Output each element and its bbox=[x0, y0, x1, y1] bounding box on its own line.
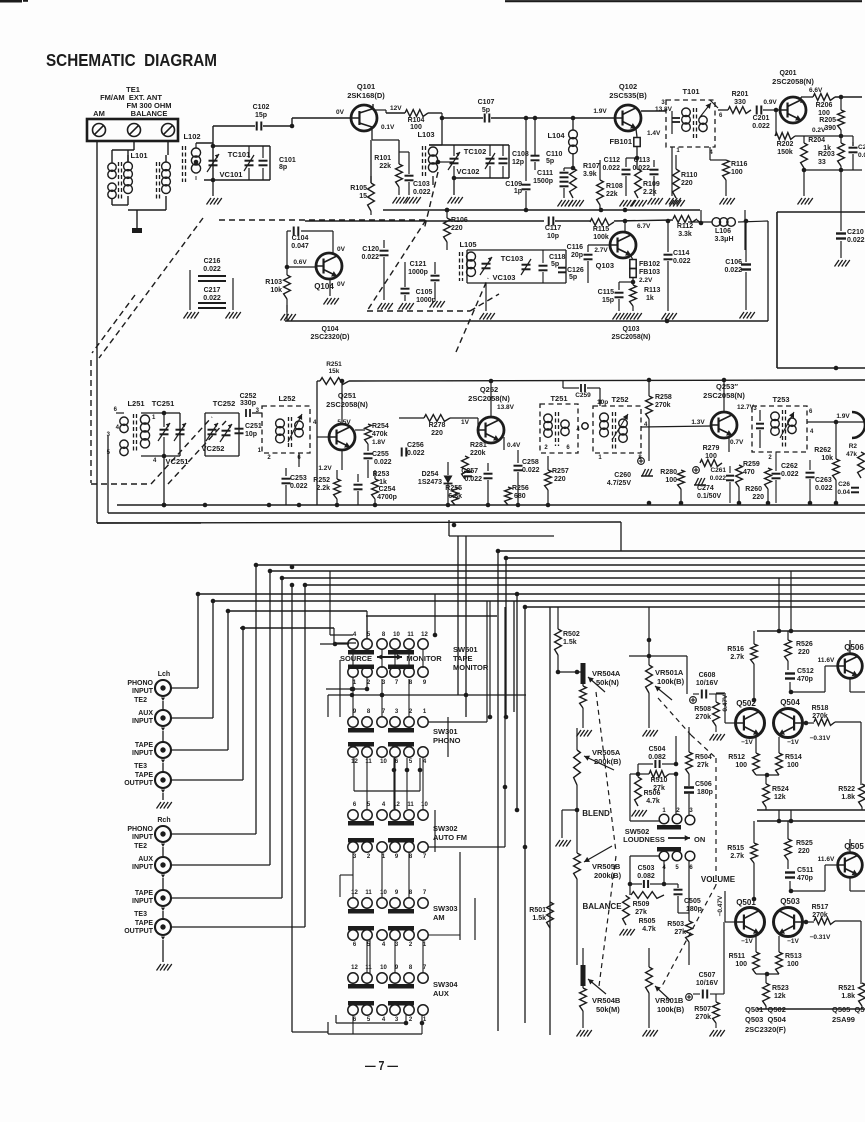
svg-text:R514: R514 bbox=[785, 754, 802, 761]
svg-text:T253: T253 bbox=[772, 395, 789, 404]
svg-text:0V: 0V bbox=[337, 246, 346, 253]
svg-text:180p: 180p bbox=[697, 789, 713, 796]
svg-text:470: 470 bbox=[743, 469, 755, 476]
svg-text:R113: R113 bbox=[644, 287, 660, 294]
svg-text:1.8V: 1.8V bbox=[372, 439, 386, 446]
svg-text:0V: 0V bbox=[337, 281, 346, 288]
svg-text:12k: 12k bbox=[774, 794, 786, 801]
svg-text:MONITOR: MONITOR bbox=[406, 654, 442, 663]
svg-text:0.022: 0.022 bbox=[413, 189, 431, 196]
svg-text:R2: R2 bbox=[849, 443, 858, 450]
svg-text:3.3μH: 3.3μH bbox=[714, 236, 733, 243]
svg-text:TAPE: TAPE bbox=[135, 920, 153, 927]
svg-text:12: 12 bbox=[351, 890, 358, 896]
svg-text:0.022: 0.022 bbox=[464, 476, 482, 483]
svg-text:27k: 27k bbox=[674, 929, 686, 936]
svg-text:100: 100 bbox=[735, 762, 747, 769]
svg-text:INPUT: INPUT bbox=[132, 898, 154, 905]
svg-text:470p: 470p bbox=[797, 676, 813, 683]
svg-text:12p: 12p bbox=[512, 159, 524, 166]
svg-text:R504: R504 bbox=[695, 754, 712, 761]
svg-text:C112: C112 bbox=[604, 157, 620, 164]
svg-text:−1V: −1V bbox=[741, 739, 753, 746]
svg-text:100: 100 bbox=[787, 961, 799, 968]
svg-text:27k: 27k bbox=[697, 762, 709, 769]
svg-text:R254: R254 bbox=[372, 423, 389, 430]
svg-text:12V: 12V bbox=[390, 105, 402, 112]
svg-text:Q501 Q502: Q501 Q502 bbox=[745, 1005, 786, 1014]
svg-text:C274: C274 bbox=[697, 485, 714, 492]
svg-text:R279: R279 bbox=[703, 445, 720, 452]
svg-text:47k: 47k bbox=[846, 451, 857, 458]
svg-text:R510: R510 bbox=[651, 777, 668, 784]
svg-text:— 7 —: — 7 — bbox=[365, 1059, 398, 1073]
svg-text:R521: R521 bbox=[838, 985, 855, 992]
svg-text:0.022: 0.022 bbox=[522, 467, 540, 474]
svg-text:4.7/25V: 4.7/25V bbox=[607, 480, 631, 487]
svg-text:C2: C2 bbox=[858, 144, 865, 151]
svg-text:11: 11 bbox=[365, 759, 372, 765]
svg-text:50k(N): 50k(N) bbox=[596, 678, 619, 687]
svg-text:R257: R257 bbox=[552, 468, 569, 475]
svg-text:20p: 20p bbox=[571, 252, 583, 259]
svg-text:220k: 220k bbox=[470, 450, 486, 457]
svg-text:R525: R525 bbox=[796, 840, 813, 847]
svg-text:22k: 22k bbox=[379, 163, 391, 170]
svg-text:TAPE: TAPE bbox=[135, 742, 153, 749]
svg-text:11: 11 bbox=[407, 802, 414, 808]
svg-text:R205: R205 bbox=[819, 117, 836, 124]
svg-text:FB101: FB101 bbox=[609, 137, 632, 146]
svg-text:15: 15 bbox=[359, 193, 367, 200]
svg-text:R501: R501 bbox=[529, 907, 546, 914]
svg-text:C105: C105 bbox=[416, 289, 433, 296]
svg-text:C107: C107 bbox=[478, 99, 495, 106]
svg-text:R107: R107 bbox=[583, 163, 600, 170]
svg-text:150k: 150k bbox=[777, 149, 793, 156]
svg-text:1.4V: 1.4V bbox=[647, 130, 661, 137]
svg-text:1.8k: 1.8k bbox=[841, 794, 855, 801]
svg-text:220: 220 bbox=[554, 476, 566, 483]
svg-text:Q504: Q504 bbox=[780, 698, 800, 707]
svg-text:C251: C251 bbox=[245, 423, 262, 430]
svg-text:10: 10 bbox=[421, 802, 428, 808]
svg-text:0.047: 0.047 bbox=[291, 243, 309, 250]
svg-text:10k: 10k bbox=[270, 287, 282, 294]
svg-text:Q505 Q5: Q505 Q5 bbox=[832, 1005, 865, 1014]
svg-text:R517: R517 bbox=[812, 904, 829, 911]
svg-text:Q253″: Q253″ bbox=[716, 382, 738, 391]
svg-text:TE3: TE3 bbox=[134, 911, 147, 918]
svg-text:0.022: 0.022 bbox=[781, 471, 799, 478]
svg-text:Q252: Q252 bbox=[480, 385, 498, 394]
svg-text:1k: 1k bbox=[646, 295, 654, 302]
svg-text:VC101: VC101 bbox=[220, 170, 243, 179]
svg-text:470k: 470k bbox=[372, 431, 388, 438]
svg-text:1.9V: 1.9V bbox=[836, 413, 850, 420]
svg-text:1000p: 1000p bbox=[408, 269, 428, 276]
svg-text:13.8V: 13.8V bbox=[655, 106, 673, 113]
svg-text:Q503 Q504: Q503 Q504 bbox=[745, 1015, 787, 1024]
svg-text:Q104: Q104 bbox=[321, 326, 338, 333]
svg-text:50k(M): 50k(M) bbox=[596, 1005, 620, 1014]
svg-text:Lch: Lch bbox=[158, 671, 170, 678]
svg-text:R281: R281 bbox=[470, 442, 487, 449]
svg-text:R526: R526 bbox=[796, 641, 813, 648]
svg-text:2.7V: 2.7V bbox=[594, 247, 608, 254]
svg-text:10: 10 bbox=[393, 632, 400, 638]
svg-text:C110: C110 bbox=[546, 151, 562, 158]
svg-text:R206: R206 bbox=[816, 102, 833, 109]
svg-text:0.022: 0.022 bbox=[203, 266, 221, 273]
svg-text:INPUT: INPUT bbox=[132, 864, 154, 871]
svg-text:R508: R508 bbox=[694, 706, 711, 713]
svg-text:2SC2320(F): 2SC2320(F) bbox=[745, 1025, 786, 1034]
svg-text:0.022: 0.022 bbox=[602, 165, 620, 172]
svg-text:2SC2058(N): 2SC2058(N) bbox=[468, 394, 510, 403]
svg-text:TC102: TC102 bbox=[464, 147, 487, 156]
svg-text:Q103: Q103 bbox=[596, 261, 614, 270]
svg-text:C210: C210 bbox=[847, 229, 864, 236]
svg-text:−1V: −1V bbox=[741, 938, 753, 945]
svg-text:SW303: SW303 bbox=[433, 904, 458, 913]
svg-text:D254: D254 bbox=[422, 471, 439, 478]
svg-text:C111: C111 bbox=[537, 170, 553, 177]
svg-text:1V: 1V bbox=[461, 419, 470, 426]
svg-text:5p: 5p bbox=[551, 261, 559, 268]
svg-text:15p: 15p bbox=[602, 297, 614, 304]
svg-text:0.022: 0.022 bbox=[815, 485, 833, 492]
svg-text:2.7k: 2.7k bbox=[730, 654, 744, 661]
svg-text:AUX: AUX bbox=[138, 710, 153, 717]
svg-text:1500p: 1500p bbox=[533, 178, 553, 185]
svg-text:3.3k: 3.3k bbox=[678, 231, 692, 238]
svg-text:11: 11 bbox=[365, 965, 372, 971]
svg-text:R115: R115 bbox=[593, 226, 609, 233]
svg-text:270k: 270k bbox=[695, 1014, 711, 1021]
svg-text:PHONO: PHONO bbox=[127, 680, 153, 687]
svg-text:C511: C511 bbox=[797, 867, 813, 874]
svg-text:0.1/50V: 0.1/50V bbox=[697, 493, 721, 500]
svg-text:R110: R110 bbox=[681, 172, 697, 179]
svg-text:10: 10 bbox=[380, 759, 387, 765]
svg-text:2SC2058(N): 2SC2058(N) bbox=[772, 77, 814, 86]
svg-text:C255: C255 bbox=[372, 451, 389, 458]
svg-text:2SK168(D): 2SK168(D) bbox=[347, 91, 385, 100]
svg-text:R116: R116 bbox=[731, 161, 747, 168]
svg-text:VR504B: VR504B bbox=[592, 996, 621, 1005]
svg-text:VC102: VC102 bbox=[457, 167, 480, 176]
svg-text:2.2k: 2.2k bbox=[316, 485, 330, 492]
svg-text:C104: C104 bbox=[292, 235, 309, 242]
svg-text:TC101: TC101 bbox=[228, 150, 251, 159]
svg-text:R251: R251 bbox=[326, 361, 342, 368]
svg-text:SW501: SW501 bbox=[453, 645, 478, 654]
svg-text:TC252: TC252 bbox=[213, 399, 236, 408]
svg-text:1k: 1k bbox=[379, 479, 387, 486]
svg-text:6.7V: 6.7V bbox=[637, 223, 651, 230]
svg-text:R280: R280 bbox=[660, 469, 677, 476]
svg-text:BLEND: BLEND bbox=[582, 809, 610, 818]
svg-text:220: 220 bbox=[681, 180, 693, 187]
svg-text:10p: 10p bbox=[547, 233, 559, 240]
svg-text:1p: 1p bbox=[514, 188, 522, 195]
svg-text:L105: L105 bbox=[459, 240, 476, 249]
svg-text:330p: 330p bbox=[240, 400, 256, 407]
svg-text:200k(B): 200k(B) bbox=[594, 871, 622, 880]
svg-text:R260: R260 bbox=[745, 486, 762, 493]
svg-text:R252: R252 bbox=[313, 477, 330, 484]
svg-text:1.8k: 1.8k bbox=[841, 993, 855, 1000]
svg-text:0.022: 0.022 bbox=[361, 254, 379, 261]
svg-text:R516: R516 bbox=[727, 646, 744, 653]
svg-text:C257: C257 bbox=[461, 468, 478, 475]
svg-text:100: 100 bbox=[665, 477, 677, 484]
svg-text:C201: C201 bbox=[753, 115, 770, 122]
svg-text:MONITOR: MONITOR bbox=[453, 663, 489, 672]
svg-text:10/16V: 10/16V bbox=[696, 680, 719, 687]
svg-text:390: 390 bbox=[824, 125, 836, 132]
svg-text:1.3V: 1.3V bbox=[691, 419, 705, 426]
svg-text:2SC535(B): 2SC535(B) bbox=[609, 91, 647, 100]
svg-text:R523: R523 bbox=[772, 985, 789, 992]
svg-text:TC103: TC103 bbox=[501, 254, 524, 263]
svg-text:12: 12 bbox=[351, 965, 358, 971]
svg-text:Q102: Q102 bbox=[619, 82, 637, 91]
svg-text:VR505A: VR505A bbox=[592, 748, 621, 757]
svg-text:4.7k: 4.7k bbox=[642, 926, 656, 933]
svg-text:INPUT: INPUT bbox=[132, 834, 154, 841]
svg-text:100: 100 bbox=[705, 453, 717, 460]
svg-text:C263: C263 bbox=[815, 477, 832, 484]
svg-text:0.7V: 0.7V bbox=[730, 439, 744, 446]
svg-text:TAPE: TAPE bbox=[135, 890, 153, 897]
svg-text:0.022: 0.022 bbox=[203, 295, 221, 302]
svg-text:L252: L252 bbox=[278, 394, 295, 403]
svg-text:AM: AM bbox=[433, 913, 445, 922]
svg-text:11: 11 bbox=[365, 890, 372, 896]
svg-text:SW302: SW302 bbox=[433, 824, 458, 833]
svg-text:0.2V: 0.2V bbox=[812, 127, 826, 134]
svg-text:R278: R278 bbox=[429, 422, 446, 429]
svg-text:INPUT: INPUT bbox=[132, 750, 154, 757]
svg-text:R503: R503 bbox=[667, 921, 684, 928]
svg-text:470p: 470p bbox=[797, 875, 813, 882]
svg-text:2.2V: 2.2V bbox=[639, 277, 653, 284]
svg-text:5p: 5p bbox=[546, 158, 554, 165]
svg-text:C507: C507 bbox=[699, 972, 716, 979]
svg-text:200k(B): 200k(B) bbox=[594, 757, 622, 766]
svg-text:SCHEMATIC DIAGRAM: SCHEMATIC DIAGRAM bbox=[46, 50, 217, 70]
svg-text:4700p: 4700p bbox=[377, 494, 397, 501]
svg-text:R105: R105 bbox=[350, 185, 367, 192]
svg-text:R506: R506 bbox=[644, 790, 661, 797]
svg-text:2SC2058(N): 2SC2058(N) bbox=[326, 400, 368, 409]
svg-text:C126: C126 bbox=[567, 267, 584, 274]
svg-text:Rch: Rch bbox=[157, 817, 170, 824]
svg-text:11.6V: 11.6V bbox=[818, 657, 835, 664]
svg-text:15p: 15p bbox=[255, 112, 267, 119]
svg-text:10p: 10p bbox=[245, 431, 257, 438]
svg-text:1.9V: 1.9V bbox=[593, 108, 607, 115]
svg-text:L102: L102 bbox=[183, 132, 200, 141]
svg-text:3.9k: 3.9k bbox=[583, 171, 597, 178]
svg-text:10k: 10k bbox=[821, 455, 833, 462]
svg-text:12: 12 bbox=[351, 759, 358, 765]
svg-text:C259: C259 bbox=[575, 392, 591, 399]
svg-text:−0.47V: −0.47V bbox=[717, 895, 724, 916]
svg-text:L101: L101 bbox=[130, 151, 147, 160]
svg-text:0.1V: 0.1V bbox=[381, 124, 395, 131]
svg-text:C102: C102 bbox=[253, 104, 270, 111]
svg-text:C120: C120 bbox=[362, 246, 379, 253]
svg-text:2SC2320(D): 2SC2320(D) bbox=[311, 334, 350, 341]
svg-text:R112: R112 bbox=[677, 223, 693, 230]
svg-text:1S2473: 1S2473 bbox=[418, 479, 442, 486]
svg-text:270k: 270k bbox=[812, 713, 828, 720]
svg-text:220: 220 bbox=[451, 225, 463, 232]
svg-text:AUTO FM: AUTO FM bbox=[433, 833, 467, 842]
svg-text:R258: R258 bbox=[655, 394, 672, 401]
svg-text:VR505B: VR505B bbox=[592, 862, 621, 871]
svg-text:VOLUME: VOLUME bbox=[701, 875, 736, 884]
svg-text:Q104: Q104 bbox=[314, 282, 334, 291]
svg-text:220: 220 bbox=[798, 649, 810, 656]
svg-text:TAPE: TAPE bbox=[453, 654, 472, 663]
svg-text:100k(B): 100k(B) bbox=[657, 1005, 685, 1014]
svg-text:R518: R518 bbox=[812, 705, 829, 712]
svg-text:15k: 15k bbox=[329, 368, 340, 375]
svg-text:11: 11 bbox=[407, 632, 414, 638]
svg-text:0.4V: 0.4V bbox=[507, 442, 521, 449]
svg-text:270k: 270k bbox=[655, 402, 671, 409]
svg-text:10: 10 bbox=[380, 890, 387, 896]
svg-text:0.9V: 0.9V bbox=[763, 99, 777, 106]
svg-text:1.2V: 1.2V bbox=[318, 465, 332, 472]
svg-text:11.6V: 11.6V bbox=[818, 856, 835, 863]
svg-text:TC251: TC251 bbox=[152, 399, 175, 408]
svg-text:C116: C116 bbox=[567, 244, 583, 251]
svg-text:C504: C504 bbox=[649, 746, 666, 753]
svg-text:C216: C216 bbox=[204, 258, 221, 265]
svg-text:R256: R256 bbox=[512, 485, 529, 492]
svg-text:100: 100 bbox=[818, 110, 830, 117]
svg-text:C506: C506 bbox=[695, 781, 712, 788]
svg-text:0.022: 0.022 bbox=[290, 483, 308, 490]
svg-text:R201: R201 bbox=[732, 91, 749, 98]
svg-text:BALANCE: BALANCE bbox=[131, 109, 168, 118]
svg-text:220: 220 bbox=[798, 848, 810, 855]
svg-text:C109: C109 bbox=[505, 181, 522, 188]
svg-text:C101: C101 bbox=[279, 157, 296, 164]
svg-text:AUX: AUX bbox=[138, 856, 153, 863]
svg-text:12k: 12k bbox=[774, 993, 786, 1000]
svg-text:0.04: 0.04 bbox=[837, 489, 850, 496]
svg-text:C260: C260 bbox=[614, 472, 631, 479]
svg-text:R262: R262 bbox=[814, 447, 831, 454]
svg-text:L103: L103 bbox=[417, 130, 434, 139]
svg-text:R108: R108 bbox=[606, 183, 623, 190]
svg-text:R204: R204 bbox=[808, 137, 825, 144]
svg-text:C217: C217 bbox=[204, 287, 221, 294]
svg-text:L251: L251 bbox=[127, 399, 144, 408]
svg-text:C608: C608 bbox=[699, 672, 716, 679]
svg-text:R512: R512 bbox=[728, 754, 745, 761]
svg-text:R524: R524 bbox=[772, 786, 789, 793]
svg-text:C117: C117 bbox=[545, 225, 561, 232]
svg-text:C258: C258 bbox=[522, 459, 539, 466]
svg-text:VR501A: VR501A bbox=[655, 668, 684, 677]
svg-text:100k: 100k bbox=[593, 234, 609, 241]
svg-text:C106: C106 bbox=[725, 259, 742, 266]
svg-text:2.2k: 2.2k bbox=[643, 189, 657, 196]
svg-text:0.082: 0.082 bbox=[637, 873, 655, 880]
svg-text:TE2: TE2 bbox=[134, 697, 147, 704]
svg-text:R101: R101 bbox=[374, 155, 391, 162]
svg-text:220: 220 bbox=[431, 430, 443, 437]
svg-text:−0.31V: −0.31V bbox=[810, 934, 831, 941]
svg-text:100k(B): 100k(B) bbox=[657, 677, 685, 686]
svg-text:5p: 5p bbox=[569, 274, 577, 281]
svg-text:C114: C114 bbox=[673, 250, 689, 257]
svg-text:33: 33 bbox=[818, 159, 826, 166]
svg-text:Q503: Q503 bbox=[780, 897, 800, 906]
svg-text:2SA99: 2SA99 bbox=[832, 1015, 855, 1024]
svg-text:100: 100 bbox=[735, 961, 747, 968]
svg-text:AUX: AUX bbox=[433, 989, 449, 998]
svg-text:C512: C512 bbox=[797, 668, 814, 675]
svg-text:VR501B: VR501B bbox=[655, 996, 684, 1005]
svg-text:R507: R507 bbox=[694, 1006, 711, 1013]
svg-text:C254: C254 bbox=[379, 486, 396, 493]
svg-text:12: 12 bbox=[421, 632, 428, 638]
svg-text:C261: C261 bbox=[710, 467, 726, 474]
svg-text:Q506: Q506 bbox=[844, 643, 864, 652]
svg-text:0.6V: 0.6V bbox=[293, 259, 307, 266]
svg-text:1k: 1k bbox=[823, 145, 831, 152]
svg-text:R502: R502 bbox=[563, 631, 580, 638]
svg-text:T251: T251 bbox=[550, 394, 567, 403]
svg-text:R203: R203 bbox=[818, 151, 835, 158]
svg-text:0.022: 0.022 bbox=[673, 258, 691, 265]
svg-text:VC251: VC251 bbox=[166, 457, 189, 466]
svg-text:1.5k: 1.5k bbox=[563, 639, 577, 646]
svg-text:TAPE: TAPE bbox=[135, 772, 153, 779]
svg-text:0.022: 0.022 bbox=[374, 459, 392, 466]
svg-text:R522: R522 bbox=[838, 786, 855, 793]
svg-text:R109: R109 bbox=[643, 181, 660, 188]
svg-text:0.022: 0.022 bbox=[632, 165, 650, 172]
svg-text:C26: C26 bbox=[838, 481, 850, 488]
svg-text:C503: C503 bbox=[638, 865, 655, 872]
svg-text:Q103: Q103 bbox=[622, 326, 639, 333]
svg-text:Q201: Q201 bbox=[779, 70, 796, 77]
svg-text:R513: R513 bbox=[785, 953, 802, 960]
svg-text:R259: R259 bbox=[743, 461, 760, 468]
svg-text:C256: C256 bbox=[407, 442, 424, 449]
svg-text:0.022: 0.022 bbox=[407, 450, 425, 457]
svg-text:270k: 270k bbox=[695, 714, 711, 721]
svg-text:270k: 270k bbox=[812, 912, 828, 919]
svg-text:27k: 27k bbox=[635, 909, 647, 916]
svg-text:C505: C505 bbox=[684, 898, 701, 905]
svg-text:100: 100 bbox=[787, 762, 799, 769]
svg-text:C262: C262 bbox=[781, 463, 798, 470]
svg-text:PHONO: PHONO bbox=[433, 736, 461, 745]
svg-text:TE3: TE3 bbox=[134, 763, 147, 770]
svg-text:SW301: SW301 bbox=[433, 727, 458, 736]
svg-text:AM: AM bbox=[93, 109, 105, 118]
